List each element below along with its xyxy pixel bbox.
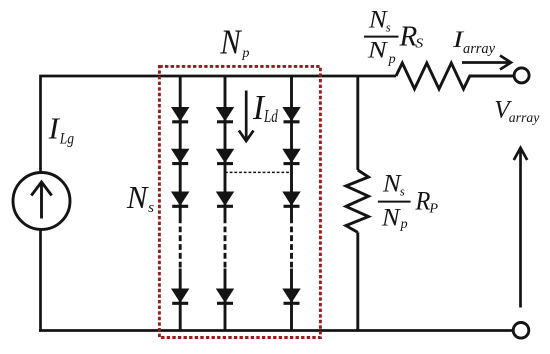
arrow I_array (right) bbox=[462, 56, 511, 70]
diode string column 3 bbox=[283, 76, 300, 330]
svg-text:s: s bbox=[386, 21, 391, 35]
wire: left + top bus from current source up and right to Rs bbox=[41, 76, 397, 331]
label I_Lg bbox=[48, 111, 74, 147]
label I_Ld bbox=[252, 88, 278, 127]
svg-text:R: R bbox=[415, 186, 431, 216]
svg-text:array: array bbox=[509, 111, 540, 126]
svg-text:Ld: Ld bbox=[263, 106, 278, 126]
label N_p bbox=[220, 23, 250, 61]
label (Ns/Np)Rs bbox=[364, 7, 423, 67]
svg-text:I: I bbox=[48, 111, 61, 145]
current source ILg bbox=[13, 173, 70, 230]
svg-text:N: N bbox=[381, 204, 401, 231]
svg-text:Lg: Lg bbox=[59, 130, 74, 147]
wire: bottom bus bbox=[39, 329, 513, 332]
svg-text:p: p bbox=[241, 45, 249, 61]
label N_s bbox=[126, 180, 154, 216]
red dashed boundary box (Ns x Np diode array) bbox=[159, 66, 320, 337]
svg-text:s: s bbox=[148, 199, 154, 216]
label I_array bbox=[452, 27, 496, 57]
svg-text:s: s bbox=[400, 185, 405, 199]
svg-text:P: P bbox=[428, 201, 438, 217]
svg-text:p: p bbox=[388, 52, 396, 67]
svg-text:p: p bbox=[400, 217, 408, 232]
label V_array bbox=[494, 95, 540, 126]
svg-text:N: N bbox=[220, 23, 243, 61]
arrow I_Ld (down) bbox=[239, 91, 254, 142]
svg-text:N: N bbox=[126, 180, 150, 215]
label (Ns/Np)Rp bbox=[378, 171, 439, 232]
resistor Rs (series) bbox=[396, 63, 514, 89]
svg-text:S: S bbox=[415, 35, 423, 51]
dotted interconnect line between column 2 and column 3 bbox=[225, 171, 292, 173]
svg-text:array: array bbox=[463, 41, 496, 57]
diode string column 1 bbox=[172, 76, 189, 330]
terminal: top-right output node bbox=[514, 68, 529, 83]
terminal: bottom-right output node bbox=[513, 323, 529, 339]
svg-text:N: N bbox=[367, 37, 389, 63]
arrow V_array polarity (up, right side) bbox=[514, 148, 527, 308]
resistor Rp (shunt) with connecting wires bbox=[346, 76, 369, 330]
diode string column 2 bbox=[217, 76, 234, 330]
